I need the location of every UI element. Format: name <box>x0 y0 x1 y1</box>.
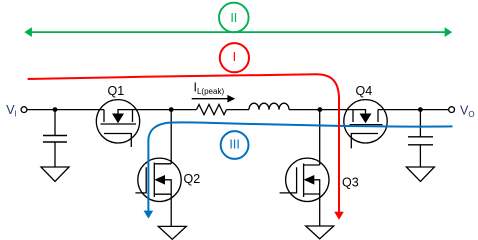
label Q2 <box>184 172 201 186</box>
label VI <box>6 103 17 119</box>
node: output capacitor junction dot <box>418 107 423 112</box>
terminal VI <box>21 107 27 113</box>
wire: green current loop II double arrow <box>24 27 452 37</box>
label IL(peak) <box>194 81 225 97</box>
wire: Q2 source to ground <box>170 194 172 226</box>
node: input capacitor junction dot <box>53 107 58 112</box>
ground (output capacitor) <box>406 167 434 182</box>
terminal VO <box>449 107 455 113</box>
wire: output capacitor to ground <box>419 145 421 167</box>
transistor Q1 <box>96 100 139 147</box>
wire: inductor to Q4, with Q3 tap <box>289 109 353 111</box>
node III label circle <box>221 131 249 159</box>
wire: junction dot down to input capacitor <box>54 110 56 136</box>
wire: junction dot down to output capacitor <box>419 110 421 137</box>
node I label circle <box>220 43 249 72</box>
wire: Q4 to VO terminal, with output capacitor tap <box>378 109 449 111</box>
node II label circle <box>219 3 249 33</box>
ground (Q3 source) <box>306 226 334 239</box>
transistor Q2 <box>135 158 181 201</box>
transistor Q3 <box>280 158 329 201</box>
label Q1 <box>108 84 125 98</box>
wire: input capacitor to ground <box>54 142 56 167</box>
resistor (inductor DCR) <box>197 105 227 115</box>
svg-text:III: III <box>229 138 239 152</box>
svg-text:I: I <box>233 50 236 64</box>
label VO <box>460 103 475 119</box>
wire: junction dot down to Q2 drain <box>170 110 172 164</box>
capacitor (output) <box>408 137 433 145</box>
transistor Q4 <box>344 100 387 149</box>
svg-text:Q3: Q3 <box>342 176 359 190</box>
wire: resistor to inductor <box>227 109 250 111</box>
svg-text:Q2: Q2 <box>184 172 201 186</box>
wire: input rail from VI terminal to Q1 left contact <box>27 109 105 111</box>
capacitor (input) <box>43 136 67 143</box>
wire: blue current loop III path <box>144 122 453 218</box>
inductor L <box>249 103 289 109</box>
ground (input capacitor) <box>41 167 69 182</box>
wire: Q1 to resistor, with Q2 tap <box>133 109 197 111</box>
svg-text:Q4: Q4 <box>356 84 373 98</box>
node: Q2 drain junction dot <box>169 107 174 112</box>
label Q3 <box>342 176 359 190</box>
wire: red current loop I path <box>28 74 344 220</box>
arrow: inductor peak current direction <box>192 95 236 103</box>
svg-text:II: II <box>230 11 237 25</box>
wire: junction dot down to Q3 drain <box>319 110 321 165</box>
label Q4 <box>356 84 373 98</box>
svg-text:Q1: Q1 <box>108 84 125 98</box>
node: Q3 drain junction dot <box>318 107 323 112</box>
ground (Q2 source) <box>158 226 186 239</box>
wire: Q3 source to ground <box>319 194 321 226</box>
